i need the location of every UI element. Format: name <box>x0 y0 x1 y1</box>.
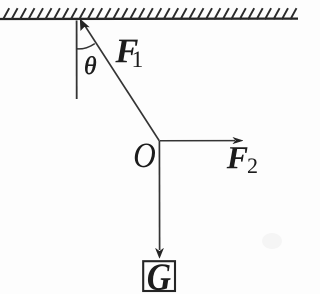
label F1 <box>115 40 137 63</box>
wire rope F1 line <box>84 24 160 141</box>
F2 arrowhead <box>233 137 243 143</box>
F1 arrowhead <box>80 19 89 30</box>
ceiling line <box>0 17 298 20</box>
G arrowhead <box>156 248 164 258</box>
vertical reference line <box>76 21 78 100</box>
label F2 <box>227 147 248 168</box>
ceiling hatching <box>3 8 297 19</box>
weight line to G <box>158 141 160 250</box>
angle label theta <box>85 56 96 74</box>
G box <box>143 261 175 291</box>
angle arc <box>77 44 95 49</box>
label G <box>148 264 171 290</box>
node O label <box>135 144 155 168</box>
scan smudge (faint) <box>262 233 282 249</box>
force F2 line <box>160 140 235 142</box>
